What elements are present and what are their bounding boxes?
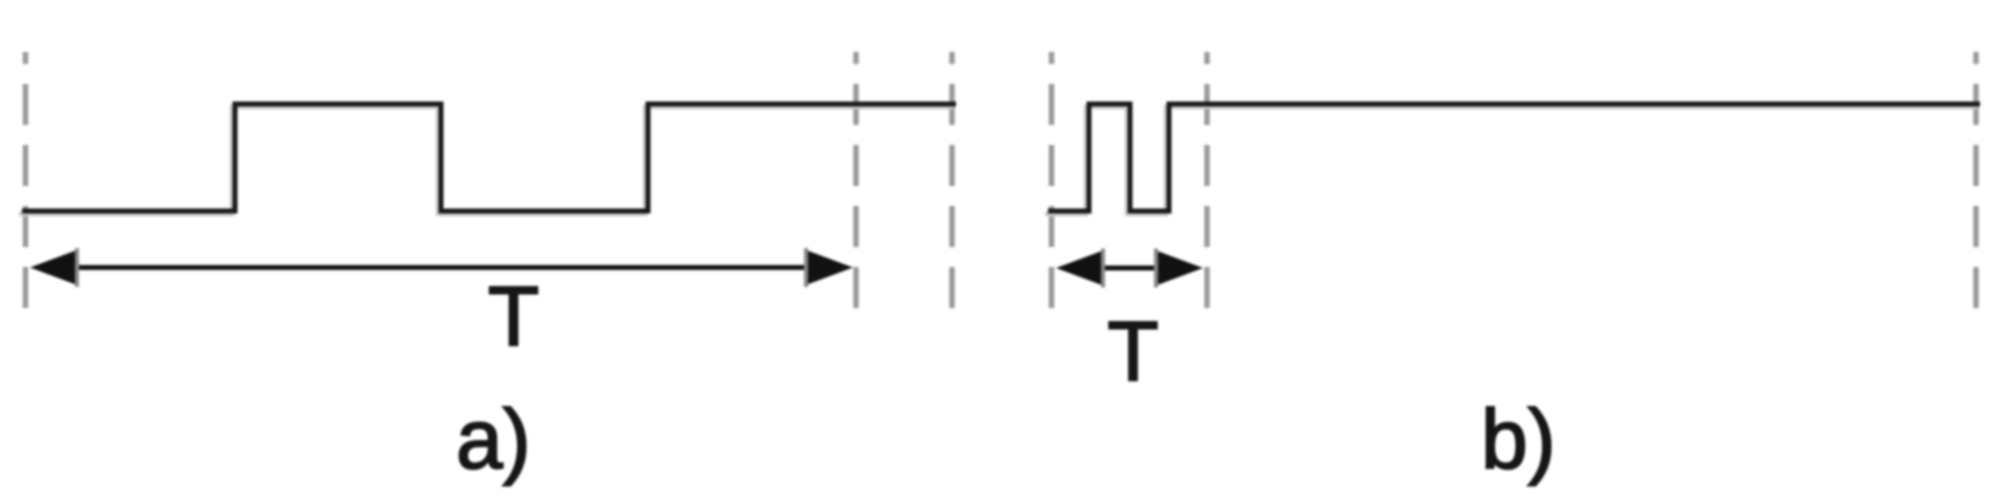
svg-text:a): a) <box>456 392 531 486</box>
svg-text:b): b) <box>1481 392 1556 486</box>
svg-text:T: T <box>488 269 539 363</box>
svg-text:T: T <box>1107 304 1158 398</box>
